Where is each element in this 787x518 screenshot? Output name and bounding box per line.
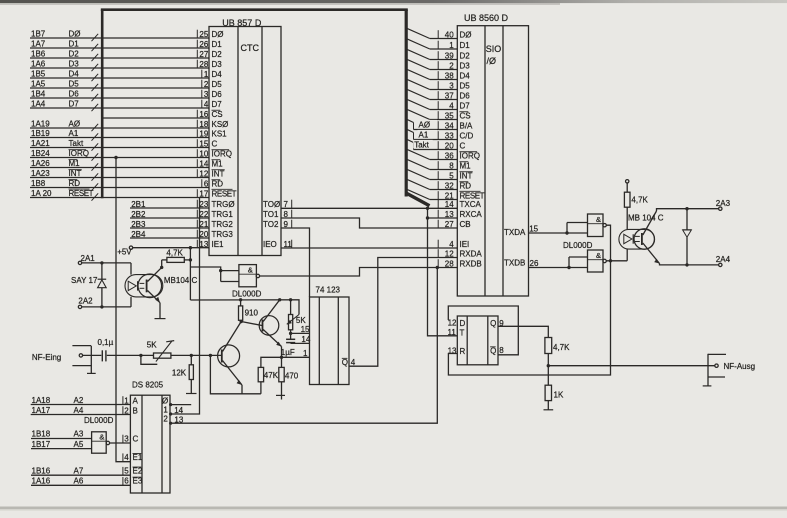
wire 2A2 input	[78, 296, 131, 308]
svg-text:16: 16	[199, 110, 208, 119]
wire IE1 node down	[189, 248, 191, 260]
FF output Q pin 9	[490, 319, 504, 328]
svg-text:C: C	[460, 141, 466, 150]
FF pin 11 T	[447, 328, 464, 337]
svg-text:14: 14	[174, 406, 183, 415]
74123 output Q pin 4	[342, 358, 356, 367]
junction base/feedback	[209, 354, 212, 357]
bus diagonal to SIO pin	[407, 189, 458, 199]
svg-text:6: 6	[124, 477, 129, 486]
wire LED cathode down	[626, 249, 628, 261]
svg-text:D5: D5	[69, 80, 80, 89]
svg-text:D4: D4	[460, 71, 471, 80]
wire RXDB from gate	[260, 268, 458, 277]
CTC pin 12 INT	[197, 169, 224, 178]
svg-text:RESET: RESET	[69, 189, 94, 198]
connector NF-Ausg	[703, 354, 755, 386]
svg-text:17: 17	[199, 189, 208, 198]
CTC output IEO pin 11	[263, 240, 292, 249]
svg-text:M1: M1	[212, 159, 224, 168]
svg-text:1B17: 1B17	[32, 440, 51, 449]
wire feedback down	[210, 355, 261, 393]
gate U4b DL000D	[84, 416, 114, 453]
svg-text:26: 26	[199, 40, 208, 49]
svg-text:4,7K: 4,7K	[631, 196, 648, 205]
transistor Q2	[259, 300, 281, 358]
wire TO2 to 74123	[281, 228, 310, 297]
diode D2	[683, 209, 692, 265]
svg-text:C: C	[212, 139, 218, 148]
svg-text:T: T	[460, 328, 465, 337]
svg-text:TRG2: TRG2	[212, 220, 234, 229]
svg-text:RESET: RESET	[212, 189, 237, 198]
svg-text:1B7: 1B7	[31, 30, 46, 39]
wire RXCA stub	[428, 217, 458, 219]
svg-text:TRG1: TRG1	[212, 210, 234, 219]
svg-text:A: A	[133, 396, 139, 405]
junction gate input	[219, 269, 222, 272]
svg-text:D: D	[460, 319, 466, 328]
svg-text:2: 2	[124, 406, 129, 415]
bus diagonal to SIO pin	[407, 109, 458, 119]
CTC pin 6 RD	[202, 179, 223, 188]
CTC output TO1 pin 8	[263, 210, 292, 219]
svg-text:74 123: 74 123	[316, 285, 341, 294]
svg-text:MB 104 C: MB 104 C	[628, 214, 664, 223]
CTC pin 1 D4	[202, 70, 222, 79]
svg-text:Ø: Ø	[162, 396, 168, 405]
wire TXDB to gate	[529, 267, 570, 269]
wire emitter node to 74123 pin 1	[261, 349, 310, 367]
svg-text:2B1: 2B1	[131, 200, 146, 209]
svg-text:Q: Q	[342, 358, 348, 367]
wire TXCA to RXCA tie	[427, 208, 429, 218]
SIO pin 8 M1	[438, 161, 471, 170]
svg-text:A4: A4	[74, 406, 84, 415]
wire 2B4 to CTC TRG	[130, 230, 209, 239]
svg-text:IORQ: IORQ	[69, 149, 89, 158]
IC U2 UB 8560 D (SIO) body	[457, 13, 528, 296]
svg-text:+5V: +5V	[117, 248, 132, 257]
potentiometer P1 5K	[147, 340, 174, 361]
SIO pin 1 D1	[438, 41, 470, 50]
wire D4 from connector 1B5 to CTC	[30, 70, 209, 82]
svg-text:1: 1	[163, 406, 168, 415]
svg-text:DØ: DØ	[69, 30, 81, 39]
wire R input path	[448, 261, 610, 376]
bus diagonal to SIO pin	[407, 99, 458, 109]
svg-text:4: 4	[204, 100, 209, 109]
svg-text:1A18: 1A18	[32, 396, 51, 405]
wire bias rail vertical	[189, 260, 191, 300]
wire M1 from connector 1A26 to CTC	[30, 159, 209, 171]
wire A1 from connector 1B19 to CTC	[30, 129, 209, 141]
svg-text:Q: Q	[490, 346, 496, 355]
svg-text:&: &	[596, 251, 601, 260]
SIO pin 36 IORQ	[438, 151, 480, 160]
svg-text:1: 1	[204, 70, 209, 79]
wire bias rail horizontal	[190, 300, 299, 315]
junction output divider	[547, 364, 550, 367]
SIO pin 13 RXCA	[438, 210, 482, 219]
svg-text:2A1: 2A1	[81, 254, 96, 263]
wire D1 from connector 1A7 to CTC	[30, 40, 209, 52]
svg-text:3: 3	[204, 90, 209, 99]
svg-text:DL000D: DL000D	[232, 290, 262, 299]
svg-text:15: 15	[199, 139, 208, 148]
CTC pin 26 D1	[197, 40, 222, 49]
svg-text:D7: D7	[69, 100, 80, 109]
wire TO1 to CB	[281, 218, 457, 228]
svg-text:5K: 5K	[147, 340, 157, 349]
wire clock down to flip-flop T input	[428, 218, 458, 336]
SIO pin 38 D4	[438, 71, 470, 80]
svg-text:19: 19	[199, 129, 208, 138]
CTC pin 18 KSØ	[197, 120, 228, 129]
SIO pin 35 CS	[438, 111, 470, 120]
svg-text:1A4: 1A4	[31, 100, 46, 109]
CTC pin 27 D2	[197, 50, 222, 59]
svg-text:4: 4	[351, 358, 356, 367]
junction diode bottom	[685, 263, 688, 266]
svg-text:5K: 5K	[296, 316, 306, 325]
SIO pin 28 RXDB	[438, 259, 482, 268]
svg-text:RESET: RESET	[460, 191, 485, 200]
SIO pin 27 CB	[438, 220, 470, 229]
wire decoder output 1 up	[170, 198, 200, 415]
svg-text:DL000D: DL000D	[84, 416, 114, 425]
wire 2B2 to CTC TRG	[130, 210, 209, 219]
svg-text:D3: D3	[69, 60, 80, 69]
svg-text:7: 7	[284, 200, 289, 209]
svg-text:IORQ: IORQ	[460, 151, 480, 160]
svg-text:2A2: 2A2	[78, 296, 93, 305]
wire RD from connector 1B8 to CTC	[30, 179, 209, 191]
svg-text:1K: 1K	[554, 390, 564, 399]
wire 2A1 input	[78, 254, 131, 274]
SIO pin 12 RXDA	[438, 249, 482, 258]
svg-text:D4: D4	[212, 70, 223, 79]
wire gate d output	[606, 260, 627, 262]
bus right vertical line	[405, 10, 408, 197]
junction TXDA gate input	[565, 231, 568, 234]
bus diagonal + label Takt to SIO pin	[407, 139, 458, 149]
FF output Qbar pin 8	[490, 346, 504, 355]
wire +5V to IE1	[133, 247, 209, 249]
svg-text:4,7K: 4,7K	[553, 343, 570, 352]
svg-text:D6: D6	[69, 90, 80, 99]
junction IE1/4.7K	[189, 246, 192, 249]
svg-text:28: 28	[199, 60, 208, 69]
resistor R3 910	[239, 300, 259, 322]
svg-text:12: 12	[448, 319, 457, 328]
terminal 2A4	[716, 255, 731, 266]
svg-text:A2: A2	[74, 396, 84, 405]
svg-text:1B18: 1B18	[32, 430, 51, 439]
DS8205 output 1 pin 14	[163, 406, 183, 416]
svg-text:1B8: 1B8	[31, 179, 46, 188]
power terminal 4.7K top	[626, 180, 629, 183]
diode D1 SAY 17	[71, 261, 106, 308]
svg-text:15: 15	[529, 224, 538, 233]
wire collector to 2A3	[657, 209, 719, 211]
CTC pin 10 IORQ	[197, 149, 232, 158]
wire DØ from connector 1B7 to CTC	[30, 30, 209, 42]
bus fan end stroke	[406, 193, 430, 206]
svg-text:DØ: DØ	[212, 30, 224, 39]
SIO pin 4 D7	[438, 101, 470, 110]
junction T2 emitter node	[280, 356, 283, 359]
wire 74123 Q to RXDA	[349, 258, 457, 367]
svg-text:27: 27	[199, 50, 208, 59]
svg-text:2A4: 2A4	[716, 255, 731, 264]
resistor R5 470	[276, 357, 299, 399]
svg-text:1B16: 1B16	[32, 466, 51, 475]
wire IORQ down to DS8205 E1	[116, 158, 130, 462]
svg-text:TXDA: TXDA	[504, 228, 526, 237]
svg-text:D1: D1	[460, 41, 471, 50]
svg-text:Q: Q	[490, 319, 496, 328]
wire Q output to 4.7K	[498, 326, 548, 337]
IC U1 UB 857 D (CTC) body	[209, 18, 281, 255]
capacitor C2 1uF	[281, 339, 295, 357]
wire pot to base node	[171, 354, 222, 356]
svg-text:D5: D5	[460, 81, 471, 90]
bus diagonal to SIO pin	[407, 79, 458, 89]
svg-text:DØ: DØ	[460, 30, 472, 39]
SIO pin 32 RD	[438, 181, 471, 190]
wire to 74123 pin 15	[291, 325, 310, 334]
svg-text:0,1µ: 0,1µ	[98, 338, 114, 347]
wire D3 from connector 1A6 to CTC	[30, 60, 209, 72]
svg-text:IE1: IE1	[212, 240, 225, 249]
svg-text:RD: RD	[212, 179, 224, 188]
bus diagonal to SIO pin	[407, 149, 458, 159]
svg-text:1A17: 1A17	[32, 406, 51, 415]
CTC pin 16 CS	[197, 110, 222, 119]
svg-text:A1: A1	[419, 130, 429, 139]
CTC pin 28 D3	[197, 60, 222, 69]
svg-text:INT: INT	[460, 171, 473, 180]
svg-text:&: &	[99, 432, 104, 441]
wire collector node to gate inputs	[190, 267, 220, 282]
wire A2 to DS8205 A	[31, 396, 139, 405]
bus diagonal to SIO pin	[407, 169, 458, 179]
svg-text:1A16: 1A16	[32, 477, 51, 486]
FF pin 13 R	[448, 347, 466, 356]
svg-text:AØ: AØ	[69, 120, 81, 129]
svg-text:1B24: 1B24	[31, 149, 50, 158]
svg-text:1A23: 1A23	[31, 169, 50, 178]
capacitor C1 0.1u	[98, 338, 114, 362]
IC U5 74123 body	[310, 285, 350, 384]
svg-text:RXDB: RXDB	[460, 259, 482, 268]
svg-text:E3: E3	[133, 477, 143, 486]
CTC pin 13 IE1	[197, 240, 224, 249]
SIO pin 20 C	[438, 141, 465, 150]
SIO output TXDA pin 15	[504, 224, 539, 237]
bus diagonal to SIO pin	[407, 89, 458, 99]
bus diagonal + label A1 to SIO pin	[407, 129, 458, 139]
wire A3 to gate	[31, 430, 92, 439]
junction pot left	[139, 354, 142, 357]
junction 5K top rail	[289, 298, 292, 301]
svg-text:2B2: 2B2	[131, 210, 146, 219]
svg-text:D7: D7	[212, 100, 223, 109]
svg-text:1B4: 1B4	[31, 90, 46, 99]
svg-text:UB 8560 D: UB 8560 D	[464, 13, 509, 23]
wire RESET from connector 1A 20 to CTC	[30, 189, 209, 201]
svg-text:&: &	[248, 265, 253, 274]
potentiometer P2 5K	[287, 300, 307, 330]
wire to NF-Ausg	[548, 365, 714, 367]
svg-text:15: 15	[301, 325, 310, 334]
junction gates tie	[609, 259, 612, 262]
wire Qbar to D loop	[448, 306, 518, 355]
DS8205 output 0	[162, 396, 191, 406]
svg-text:SIO: SIO	[486, 44, 502, 54]
bus diagonal to SIO pin	[407, 28, 458, 38]
wire decoder output 2 up to RXDB	[170, 268, 437, 424]
wire gate input stub a	[221, 270, 239, 272]
svg-text:1: 1	[124, 396, 129, 405]
junction T2 collector rail	[278, 298, 281, 301]
wire gate c output down	[606, 225, 610, 260]
svg-text:12K: 12K	[172, 369, 187, 378]
svg-text:DL000D: DL000D	[563, 241, 593, 250]
junction diode top	[685, 207, 688, 210]
svg-text:2: 2	[163, 415, 168, 424]
wire A7 to E2	[31, 466, 143, 475]
svg-text:13: 13	[174, 416, 183, 425]
svg-text:TO2: TO2	[263, 220, 279, 229]
resistor R4 47K	[258, 367, 278, 393]
svg-text:25: 25	[199, 30, 208, 39]
SIO output TXDB pin 26	[504, 259, 539, 268]
junction collector 910	[240, 320, 243, 323]
svg-text:D1: D1	[212, 40, 223, 49]
bus diagonal to SIO pin	[407, 39, 458, 49]
svg-text:D6: D6	[212, 90, 223, 99]
svg-text:E1: E1	[133, 453, 143, 462]
optocoupler U3 MB104C	[125, 267, 197, 318]
terminal 2A3	[716, 199, 731, 211]
svg-text:4: 4	[124, 453, 129, 462]
junction IORQ tap	[114, 156, 117, 159]
wire T1 collector to T2 base	[241, 322, 262, 326]
svg-text:Takt: Takt	[414, 140, 429, 149]
bus diagonal + label AØ to SIO pin	[407, 119, 458, 129]
CTC pin 17 RESET	[197, 189, 236, 198]
svg-text:2B3: 2B3	[131, 220, 146, 229]
svg-text:26: 26	[530, 259, 539, 268]
svg-text:INT: INT	[212, 169, 225, 178]
svg-text:&: &	[596, 215, 601, 224]
resistor R8 4.7K	[624, 183, 648, 229]
svg-text:R: R	[460, 347, 466, 356]
power +5V terminal	[117, 246, 133, 257]
IC U6 flip-flop body	[457, 316, 498, 365]
svg-text:M1: M1	[69, 159, 81, 168]
svg-text:D7: D7	[460, 101, 471, 110]
SIO pin 5 INT	[438, 171, 473, 180]
CTC pin 20 TRG3	[197, 230, 233, 239]
svg-text:IEI: IEI	[460, 240, 470, 249]
gate U4d DL000D	[588, 250, 607, 272]
FF pin 12 D	[448, 319, 466, 328]
wire NF-Eing to C1	[83, 354, 101, 356]
svg-text:D2: D2	[460, 51, 471, 60]
svg-text:INT: INT	[69, 169, 82, 178]
svg-text:D4: D4	[69, 70, 80, 79]
resistor R6 4.7K	[545, 338, 570, 366]
svg-text:D1: D1	[69, 40, 80, 49]
svg-text:2: 2	[204, 80, 209, 89]
svg-text:TRG3: TRG3	[212, 230, 234, 239]
bus diagonal to SIO pin	[407, 69, 458, 79]
resistor R1 4.7K	[162, 248, 191, 262]
CTC output TOØ pin 7	[263, 200, 292, 209]
svg-text:A6: A6	[74, 477, 84, 486]
wire A5 to gate	[31, 440, 92, 449]
resistor R7 1K	[544, 366, 564, 410]
junction TXDB gate input	[567, 266, 570, 269]
wire TXDA to gate	[529, 232, 588, 234]
bus left vertical line	[101, 10, 104, 199]
wire AØ from connector 1A19 to CTC	[30, 120, 209, 132]
svg-text:A3: A3	[74, 430, 84, 439]
svg-text:E2: E2	[133, 467, 143, 476]
svg-text:1B19: 1B19	[31, 129, 50, 138]
wire INT from connector 1A23 to CTC	[30, 169, 209, 181]
transistor Q1	[218, 322, 242, 394]
junction 910 rail	[239, 298, 242, 301]
bus diagonal to SIO pin	[407, 179, 458, 189]
bus diagonal to SIO pin	[407, 159, 458, 169]
wire A6 to E3	[31, 477, 143, 486]
bus top line	[101, 8, 408, 11]
svg-text:DS 8205: DS 8205	[132, 381, 164, 390]
SIO pin 2 D3	[438, 61, 470, 70]
wire 2B3 to CTC TRG	[130, 220, 209, 229]
wire D2 from connector 1B6 to CTC	[30, 50, 209, 62]
svg-text:4,7K: 4,7K	[166, 248, 183, 257]
svg-text:AØ: AØ	[419, 120, 431, 129]
wire CS from bus to CTC pin 16	[104, 117, 210, 119]
connector NF-Eing	[32, 346, 96, 374]
svg-text:10: 10	[199, 149, 208, 158]
CTC pin 19 KS1	[197, 129, 227, 138]
gate U4c DL000D	[588, 214, 607, 237]
wire TXDB input tie	[569, 257, 588, 268]
junction 5K bottom	[289, 332, 292, 335]
SIO pin 3 D5	[438, 81, 470, 90]
svg-text:6: 6	[204, 179, 209, 188]
svg-text:D3: D3	[460, 61, 471, 70]
svg-text:CS: CS	[460, 111, 471, 120]
CTC pin 25 DØ	[197, 30, 223, 39]
svg-text:910: 910	[245, 308, 259, 317]
svg-text:TXCA: TXCA	[460, 200, 482, 209]
wire 2B1 to CTC TRG	[130, 200, 209, 209]
CTC pin 23 TRGØ	[197, 200, 234, 209]
svg-text:C/D: C/D	[460, 131, 474, 140]
SIO pin 37 D6	[438, 91, 470, 100]
svg-text:RD: RD	[69, 179, 81, 188]
bus diagonal to SIO pin	[407, 49, 458, 59]
wire pot wiper hook	[141, 355, 157, 364]
svg-text:1: 1	[303, 349, 308, 358]
